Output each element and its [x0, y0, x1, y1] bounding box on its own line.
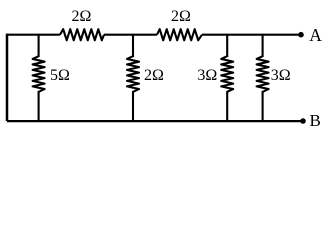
svg-text:B: B: [310, 111, 321, 128]
svg-text:2Ω: 2Ω: [144, 67, 164, 84]
svg-text:2Ω: 2Ω: [171, 8, 191, 25]
svg-text:3Ω: 3Ω: [197, 67, 217, 84]
svg-text:2Ω: 2Ω: [72, 8, 92, 25]
svg-text:3Ω: 3Ω: [271, 67, 291, 84]
svg-text:5Ω: 5Ω: [50, 67, 70, 84]
svg-text:A: A: [309, 25, 322, 45]
